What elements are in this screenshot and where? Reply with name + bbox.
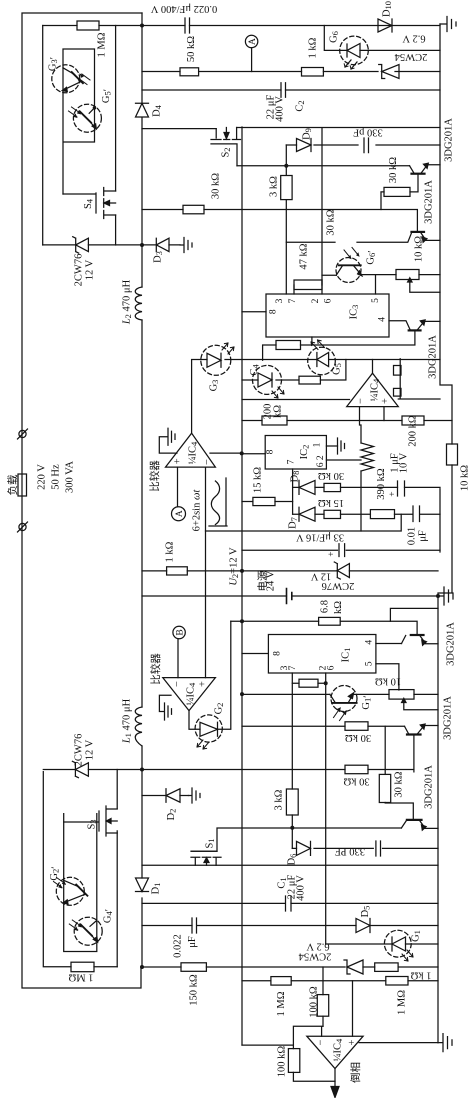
svg-text:30 kΩ: 30 kΩ: [388, 157, 399, 183]
wire D3 branch: [142, 244, 180, 246]
mosfet S3: [64, 806, 117, 836]
svg-text:2: 2: [311, 298, 321, 303]
wire load loop left: [22, 13, 142, 988]
wire D6 848: [292, 847, 438, 849]
svg-text:400 V: 400 V: [296, 875, 307, 901]
svg-text:−: −: [172, 681, 183, 687]
wire IC3 bottom stub 345: [263, 330, 415, 360]
svg-text:IC3: IC3: [348, 305, 360, 320]
bus x=440 mid short: [439, 489, 441, 552]
svg-text:1 kΩ: 1 kΩ: [165, 541, 176, 562]
wire 981: [242, 980, 438, 982]
svg-text:330 pF: 330 pF: [353, 127, 383, 138]
inductor L2: [135, 287, 142, 320]
wire pot 274.5: [376, 275, 441, 294]
capacitor 0.022 top: [185, 18, 190, 33]
wire top outer bend: [141, 13, 143, 26]
capacitor 1uF: [398, 481, 405, 496]
svg-text:200 kΩ: 200 kΩ: [408, 415, 419, 447]
mosfet S2: [211, 128, 241, 166]
svg-text:100 kΩ: 100 kΩ: [309, 986, 320, 1018]
svg-text:−: −: [356, 398, 367, 404]
box bottom outer left: [43, 772, 117, 967]
diode D8: [299, 480, 315, 494]
wire B circle stem: [177, 639, 179, 678]
svg-text:¼IC4: ¼IC4: [186, 682, 198, 705]
bus x=322: [322, 128, 326, 944]
svg-text:2: 2: [316, 455, 326, 460]
zener 2CW54 bottom: [344, 960, 363, 974]
svg-text:100 kΩ: 100 kΩ: [277, 1046, 288, 1078]
source A circle: [172, 507, 186, 521]
svg-text:0.022: 0.022: [173, 934, 184, 958]
wire compB out G2: [189, 621, 231, 729]
squares IC4b right: [394, 366, 402, 376]
svg-text:G1′: G1′: [361, 695, 374, 709]
wire G6p diag: [322, 274, 376, 277]
resistor 1k 571: [167, 567, 188, 575]
resistor 1M right 981: [386, 977, 408, 986]
wire inverter out: [334, 1069, 336, 1089]
svg-text:30 kΩ: 30 kΩ: [343, 776, 369, 787]
svg-text:A: A: [175, 510, 185, 517]
comparator B: [163, 678, 216, 711]
svg-text:300 VA: 300 VA: [65, 461, 76, 493]
resistor 10k 695: [389, 690, 414, 700]
svg-text:G5: G5: [332, 363, 344, 375]
wire S1 gate 828: [191, 828, 401, 851]
wire 531: [206, 514, 402, 531]
svg-text:4: 4: [378, 317, 388, 322]
transistor T3: [409, 329, 421, 331]
svg-text:3: 3: [275, 298, 285, 303]
svg-text:+: +: [198, 681, 209, 687]
resistor 3k bottom vert: [286, 789, 298, 815]
svg-text:2CW76: 2CW76: [74, 254, 85, 287]
svg-text:3DG201A: 3DG201A: [443, 696, 454, 740]
wire 399.5: [242, 399, 350, 401]
wire S3 drain src: [116, 770, 118, 967]
svg-text:47 kΩ: 47 kΩ: [299, 243, 310, 269]
resistor 390k: [370, 510, 394, 519]
svg-text:D1: D1: [151, 883, 163, 895]
svg-text:15 kΩ: 15 kΩ: [253, 467, 264, 493]
box bottom inner: [64, 814, 97, 952]
svg-text:3DG201A: 3DG201A: [424, 180, 435, 224]
svg-text:IC1: IC1: [341, 648, 353, 663]
opto G5p: [73, 104, 101, 132]
wire top inner rail: [43, 25, 440, 27]
svg-text:150 kΩ: 150 kΩ: [189, 974, 200, 1006]
wire 501 15k: [242, 501, 293, 503]
sine graph: [209, 478, 227, 526]
diode D1: [136, 878, 149, 892]
wire 864: [142, 864, 438, 866]
svg-text:2CW76: 2CW76: [74, 734, 85, 767]
diode D3: [156, 238, 169, 251]
ground bottom right: [438, 1034, 452, 1052]
LED G6: [347, 44, 360, 58]
opamp inverter: [307, 1036, 363, 1068]
wire zenerB 771.6: [43, 769, 142, 771]
svg-text:0.01: 0.01: [407, 527, 418, 545]
capacitor 0.022 bottom: [192, 918, 197, 933]
resistor 200k right: [402, 416, 424, 425]
inductor L1: [135, 707, 142, 746]
wire inverter gnd 1042: [359, 1042, 438, 1044]
wire D2 797: [142, 795, 189, 797]
svg-text:D9: D9: [302, 128, 314, 140]
svg-text:7: 7: [288, 298, 298, 303]
wire S4 drain src: [115, 26, 117, 246]
opto G2p: [56, 877, 84, 905]
box top outer left: [42, 26, 44, 246]
svg-text:15 kΩ: 15 kΩ: [318, 497, 344, 508]
wire IC1 pins37 stub: [291, 673, 293, 789]
resistor 1M top: [77, 21, 99, 30]
zigzag resistor: [361, 443, 374, 471]
mosfet S4: [63, 188, 116, 219]
wire G4 380: [242, 360, 346, 381]
resistor 30k T1base + leads: [384, 187, 410, 196]
svg-text:kΩ: kΩ: [273, 405, 284, 418]
svg-text:5: 5: [371, 298, 381, 303]
resistor 150k: [181, 963, 206, 972]
ground D3: [180, 238, 192, 253]
svg-text:U2=12 V: U2=12 V: [229, 547, 241, 586]
capacitor 0.01: [413, 506, 420, 522]
wire IC3 pin8: [242, 311, 266, 313]
source B circle: [173, 626, 185, 638]
svg-text:1 MΩ: 1 MΩ: [97, 32, 108, 57]
svg-text:6: 6: [324, 298, 334, 303]
svg-text:S1: S1: [205, 838, 217, 848]
bus x=242 mid: [241, 127, 243, 1045]
svg-text:6.2 V: 6.2 V: [402, 33, 426, 44]
ground comparator B: [159, 695, 171, 720]
mosfet S1: [191, 851, 221, 865]
svg-text:3 kΩ: 3 kΩ: [269, 176, 280, 197]
svg-text:C2: C2: [295, 100, 307, 111]
capacitor C2 22uF: [281, 83, 286, 98]
resistor 15k left: [253, 497, 275, 505]
svg-text:μF: μF: [187, 936, 198, 948]
zener 2CW54 top: [379, 65, 399, 79]
wire S2 gate 166: [237, 165, 410, 167]
ammeter A: [245, 35, 257, 47]
wire 30k vert to T6 base: [385, 803, 413, 820]
wire IC3 pin4: [389, 321, 410, 330]
diode D4: [136, 103, 149, 117]
wire compA plus lead: [177, 467, 179, 507]
LED G5: [317, 353, 329, 367]
wire 242: [286, 232, 411, 242]
resistor 1M box: [71, 962, 94, 972]
wire D9 145: [286, 144, 440, 146]
wire 30k vert top lead: [384, 726, 386, 774]
resistor 6.8k: [319, 617, 341, 625]
transistor T2: [412, 231, 425, 233]
opto G4p: [74, 917, 102, 945]
bus x=142 main left: [141, 26, 143, 968]
wire IC1 pin5: [376, 664, 399, 690]
svg-text:¼IC4: ¼IC4: [188, 441, 200, 464]
svg-text:1 MΩ: 1 MΩ: [397, 990, 408, 1015]
resistor 1k top: [302, 68, 324, 77]
opto G3p: [52, 65, 80, 93]
wire 925: [142, 925, 438, 927]
diode D10: [378, 19, 392, 32]
node dots: [140, 24, 440, 970]
svg-text:S3: S3: [87, 819, 99, 829]
svg-text:6+2sin ωt: 6+2sin ωt: [192, 489, 203, 532]
arrow inverter out: [331, 1087, 339, 1098]
transistor T4: [411, 634, 424, 636]
resistor 50k: [180, 68, 199, 76]
potentiometer 10k: [396, 270, 419, 280]
svg-text:¼IC4: ¼IC4: [333, 1038, 345, 1061]
svg-text:5: 5: [365, 661, 375, 666]
svg-text:D10: D10: [382, 1, 394, 17]
svg-text:30 kΩ: 30 kΩ: [326, 209, 337, 235]
load switch circle 2: [19, 523, 26, 530]
wire 47k-70: [294, 280, 322, 294]
svg-text:6: 6: [316, 462, 326, 467]
svg-text:7: 7: [287, 459, 297, 464]
resistor 100k input vert: [317, 995, 328, 1017]
diode D2: [166, 789, 180, 802]
transistor T5: [407, 733, 421, 735]
svg-text:1 MΩ: 1 MΩ: [276, 991, 287, 1016]
svg-text:A: A: [248, 38, 258, 45]
ground D2: [189, 788, 201, 803]
wire 514 D7: [293, 513, 440, 515]
resistor 30k 772: [345, 765, 368, 774]
svg-text:3DG201A: 3DG201A: [428, 335, 439, 379]
wire G3 G5 360: [192, 359, 440, 361]
svg-text:B: B: [176, 629, 186, 635]
diode D5: [356, 919, 370, 933]
capacitor 330pF bottom: [376, 841, 381, 856]
resistor 345: [276, 341, 301, 350]
wire 944 G1: [326, 943, 438, 945]
wire compA minus down: [205, 467, 207, 677]
svg-text:330 PF: 330 PF: [335, 846, 365, 857]
wire 903 C1: [142, 902, 438, 904]
svg-text:10 V: 10 V: [399, 452, 410, 473]
resistor 3k top vert: [281, 176, 292, 200]
resistor 47k: [294, 280, 322, 290]
load box: [18, 474, 27, 496]
svg-text:12 V: 12 V: [85, 259, 96, 280]
svg-text:390 kΩ: 390 kΩ: [376, 468, 387, 500]
svg-text:30 kΩ: 30 kΩ: [345, 732, 371, 743]
IC1 box: [268, 635, 376, 674]
resistor 15k D7: [324, 510, 341, 518]
svg-text:6.2 V: 6.2 V: [306, 941, 330, 952]
svg-text:0.022 μF/400 V: 0.022 μF/400 V: [150, 3, 217, 14]
wire IC1 pin8: [242, 653, 268, 655]
diode D9: [297, 139, 312, 152]
wire 100k input drop: [322, 967, 324, 1026]
svg-text:−: −: [202, 459, 213, 465]
resistor 100k fb vert: [288, 1049, 299, 1073]
svg-text:7: 7: [288, 665, 298, 670]
wire IC4b minus lead: [360, 407, 362, 531]
svg-text:12 V: 12 V: [85, 739, 96, 760]
arrows G6: [345, 60, 357, 69]
wire bus to base rail T4: [390, 608, 438, 621]
wire D 71.5: [142, 71, 440, 73]
svg-text:比较器: 比较器: [149, 653, 162, 685]
svg-text:G5′: G5′: [101, 89, 114, 103]
transistor T6: [407, 819, 422, 821]
svg-text:30 kΩ: 30 kΩ: [211, 173, 222, 199]
svg-text:10 kΩ: 10 kΩ: [460, 465, 471, 491]
IC3 box: [266, 294, 389, 337]
svg-text:C4: C4: [249, 364, 261, 376]
svg-text:400 V: 400 V: [275, 96, 286, 122]
svg-text:8: 8: [273, 651, 283, 656]
capacitor 33uF: [339, 544, 345, 557]
wire 571 1k: [142, 570, 438, 572]
resistor 10k bus vert: [447, 444, 458, 465]
svg-text:3DG201A: 3DG201A: [424, 765, 435, 809]
svg-text:G4′: G4′: [103, 909, 116, 923]
wire 488 D8: [293, 486, 440, 488]
phototransistor G1p: [331, 686, 357, 712]
svg-text:S2: S2: [221, 147, 233, 157]
transistor T1: [412, 173, 425, 175]
IC2 box: [265, 436, 326, 470]
wire pot wiper T5: [404, 702, 438, 710]
capacitor 330pF top: [364, 138, 369, 153]
ground IC2 pin1: [338, 438, 345, 454]
svg-text:2CW54: 2CW54: [394, 51, 427, 62]
wire IC2 pin26: [326, 459, 361, 461]
resistor 30k vert: [379, 774, 390, 802]
wire 1045 from bus: [242, 1044, 293, 1046]
wire minus net inverter: [293, 1026, 323, 1048]
resistor 30k wireG: [183, 205, 204, 214]
svg-text:3DG201A: 3DG201A: [446, 622, 457, 666]
svg-text:D2: D2: [166, 809, 178, 821]
wire 596 supply: [142, 595, 438, 597]
wire fb bottom: [293, 1072, 335, 1081]
LED G4: [258, 373, 272, 387]
svg-text:G2: G2: [214, 703, 226, 715]
wire E 90: [142, 89, 440, 91]
svg-text:L1 470 μH: L1 470 μH: [122, 698, 134, 744]
wire IC2 pin7 stub: [292, 469, 294, 514]
svg-text:8: 8: [266, 449, 276, 454]
comparator A: [166, 433, 216, 467]
wire 420.5: [242, 420, 452, 422]
LED G3: [207, 353, 221, 367]
svg-text:1 kΩ: 1 kΩ: [410, 970, 431, 981]
svg-text:+: +: [388, 491, 398, 496]
svg-text:G3′: G3′: [48, 57, 61, 71]
svg-text:G6′: G6′: [366, 250, 379, 264]
svg-text:30 kΩ: 30 kΩ: [394, 771, 405, 797]
svg-text:μF: μF: [418, 530, 429, 542]
svg-text:1 MΩ: 1 MΩ: [68, 972, 93, 983]
wire 624 6.8k: [231, 621, 417, 635]
diode D7: [299, 507, 315, 521]
bus x=440 right top: [438, 24, 452, 1043]
wire plus lead inverter: [352, 981, 354, 1036]
resistor wire380: [299, 376, 320, 384]
LED G1: [392, 937, 406, 951]
svg-text:6.8: 6.8: [320, 600, 331, 613]
svg-text:D4: D4: [152, 104, 164, 117]
zener 2CW76 mid: [334, 562, 349, 579]
svg-text:220 V: 220 V: [37, 464, 48, 490]
svg-text:D6: D6: [287, 854, 299, 866]
svg-text:50 kΩ: 50 kΩ: [186, 36, 197, 62]
zener 2CW76 bottom left: [72, 761, 88, 777]
wire 552: [242, 549, 440, 551]
svg-text:kΩ: kΩ: [333, 601, 344, 614]
wire compA out: [191, 360, 193, 433]
ground comparator A: [159, 428, 177, 453]
wire S4 zener 245: [43, 244, 142, 246]
svg-text:G6: G6: [329, 31, 341, 43]
wire C 50.4 G6: [324, 26, 440, 51]
svg-text:4: 4: [365, 640, 375, 645]
capacitor C1 22uF: [286, 896, 292, 911]
opamp IC4b: [347, 373, 399, 406]
svg-text:1 kΩ: 1 kΩ: [308, 37, 319, 58]
wire 695 10k G1p: [242, 693, 438, 695]
vert 286 node to 3k: [285, 145, 287, 294]
svg-text:8: 8: [269, 309, 279, 314]
ground top right: [440, 17, 456, 32]
resistor 200k left: [262, 416, 287, 425]
svg-text:24 V: 24 V: [266, 570, 277, 591]
wire IC1 pin4: [376, 643, 402, 645]
svg-text:¼IC4: ¼IC4: [370, 378, 382, 401]
diode D6: [297, 841, 311, 855]
svg-text:3 kΩ: 3 kΩ: [274, 789, 285, 810]
box top inner: [63, 49, 95, 194]
wire 772 30k: [142, 769, 414, 771]
svg-text:负载: 负载: [6, 474, 19, 495]
svg-text:倒相: 倒相: [349, 1062, 362, 1083]
svg-text:+: +: [380, 398, 391, 404]
LED G2: [200, 722, 218, 736]
svg-text:1: 1: [312, 442, 322, 447]
svg-text:33 μF/16 V: 33 μF/16 V: [296, 532, 344, 543]
svg-text:L2 470 μH: L2 470 μH: [122, 279, 134, 325]
phototransistor G6p: [336, 258, 361, 283]
battery 24V: [287, 589, 292, 604]
svg-text:30 kΩ: 30 kΩ: [318, 470, 344, 481]
wire IC2 pin1 gnd: [326, 445, 337, 447]
svg-text:10 kΩ: 10 kΩ: [375, 676, 401, 687]
svg-text:D7: D7: [288, 517, 300, 529]
resistor 1M left 981: [271, 977, 291, 986]
svg-text:12 V: 12 V: [310, 571, 331, 582]
svg-text:50 Hz: 50 Hz: [51, 464, 62, 490]
svg-text:G3: G3: [209, 380, 221, 392]
svg-text:+: +: [347, 1039, 358, 1045]
svg-text:D8: D8: [290, 471, 302, 483]
wire 967: [142, 966, 438, 968]
svg-text:10 kΩ: 10 kΩ: [414, 236, 425, 262]
wire IC2 pin8: [242, 453, 265, 455]
wire 3k bottom lead: [291, 815, 293, 848]
